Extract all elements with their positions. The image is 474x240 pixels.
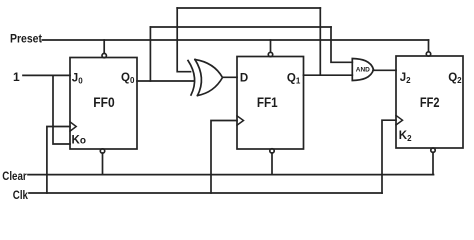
svg-text:FF0: FF0 xyxy=(93,95,114,110)
preset bubble FF2 xyxy=(426,52,430,56)
wire Preset bus xyxy=(42,39,428,41)
svg-text:Q2: Q2 xyxy=(448,72,462,85)
wire Clk riser to FF0 clock xyxy=(47,127,70,194)
wire Q0 riser to top bus2 xyxy=(149,27,151,81)
clear bubble FF0 xyxy=(100,149,104,153)
clock triangle FF2 xyxy=(396,116,403,125)
clear bubble FF1 xyxy=(270,149,274,153)
flip-flop FF2 box xyxy=(396,56,463,148)
svg-text:Clear: Clear xyxy=(2,169,27,183)
svg-text:Ko: Ko xyxy=(72,135,86,147)
wire junction 1-to-Ko vertical xyxy=(53,75,70,144)
and gate U2 body xyxy=(352,59,373,81)
wire AND output to J2 xyxy=(373,69,396,71)
wire Preset drop to FF0 xyxy=(103,40,105,53)
wire Clk riser to FF2 clock xyxy=(382,120,396,193)
svg-text:Clk: Clk xyxy=(13,188,28,202)
wire FF1 clear drop xyxy=(271,153,273,175)
svg-text:Preset: Preset xyxy=(10,32,42,46)
wire Q0 output xyxy=(137,80,194,82)
wire Preset drop to FF2 xyxy=(428,40,430,52)
svg-text:Q0: Q0 xyxy=(121,72,135,85)
svg-text:FF1: FF1 xyxy=(257,95,278,110)
flip-flop FF0 box xyxy=(70,58,137,150)
svg-text:J2: J2 xyxy=(400,72,411,85)
wire Clk bus xyxy=(29,192,382,194)
xor gate body xyxy=(195,60,223,96)
wire bus1 riser from Q1 xyxy=(319,8,321,75)
xor gate input arc 2 xyxy=(195,60,201,96)
wire Preset drop to FF1 xyxy=(270,40,272,52)
svg-text:Q1: Q1 xyxy=(287,73,301,86)
svg-text:FF2: FF2 xyxy=(420,95,440,110)
wire Clear bus xyxy=(28,174,434,176)
wire top bus2 (Q0 to AND) xyxy=(150,26,331,28)
svg-text:D: D xyxy=(240,73,248,85)
clock triangle FF0 xyxy=(70,122,76,131)
svg-text:1: 1 xyxy=(13,70,20,84)
svg-text:K2: K2 xyxy=(399,130,412,143)
preset bubble FF0 xyxy=(102,53,106,57)
flip-flop FF1 box xyxy=(237,57,304,150)
svg-text:AND: AND xyxy=(356,67,370,74)
wire XOR output to D xyxy=(223,76,238,78)
wire Clk riser to FF1 clock xyxy=(211,121,237,194)
clock triangle FF1 xyxy=(237,116,244,125)
wire FF2 clear drop xyxy=(432,152,434,174)
preset bubble FF1 xyxy=(268,52,272,56)
wire bus2 drop to AND upper input xyxy=(331,27,352,62)
wire bus1 drop to XOR upper input xyxy=(177,8,190,72)
wire input 1 to J0 xyxy=(23,74,70,76)
wire Q1 output to AND xyxy=(304,74,353,76)
xor gate input arc 1 xyxy=(188,61,195,96)
wire FF0 clear drop xyxy=(102,153,104,175)
wire top bus1 (Q1 to XOR) xyxy=(177,7,320,9)
clear bubble FF2 xyxy=(431,148,435,152)
svg-text:J0: J0 xyxy=(72,72,83,85)
